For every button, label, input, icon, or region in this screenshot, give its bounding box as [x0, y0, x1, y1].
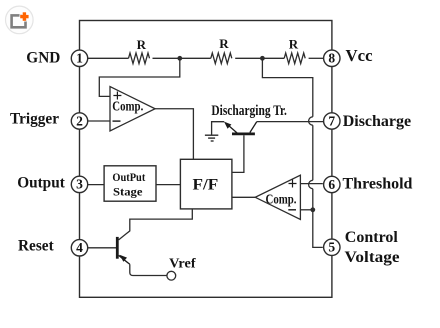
wire pin1 to R1: [88, 57, 129, 59]
svg-text:F/F: F/F: [193, 177, 219, 194]
node A junction dot: [177, 56, 182, 61]
svg-text:Control: Control: [345, 229, 399, 246]
svg-text:R: R: [219, 36, 229, 51]
svg-text:Vcc: Vcc: [346, 46, 374, 65]
wire pin 2 to comparator 1 minus input: [88, 120, 110, 122]
wire comparator 1 output to F/F: [155, 109, 193, 160]
wire R1 to node A: [153, 57, 211, 59]
svg-text:8: 8: [328, 51, 335, 66]
pin 4: [71, 240, 87, 256]
pin 7: [324, 113, 340, 129]
open-in-new icon: [5, 6, 33, 34]
wire pin 3 to output stage: [88, 184, 104, 186]
output stage box: [104, 166, 156, 201]
wire R2 to node B: [235, 57, 284, 59]
svg-text:Stage: Stage: [113, 186, 143, 198]
wire comparator 2 minus input to control net: [300, 209, 312, 211]
op-amp comparator 1: [110, 87, 155, 131]
resistor R1: [129, 53, 150, 64]
svg-text:Comp.: Comp.: [266, 191, 297, 206]
svg-text:Vref: Vref: [169, 256, 196, 271]
pin 2: [71, 113, 87, 129]
resistor R3: [284, 53, 305, 64]
svg-text:4: 4: [76, 240, 83, 255]
wire Q1 base to F/F: [232, 135, 244, 172]
wire F/F to transistor Q2 collector: [119, 209, 193, 240]
svg-text:Output: Output: [17, 174, 66, 191]
transistor Q2 reset: [117, 237, 130, 264]
ground: [205, 135, 218, 141]
wire ground to transistor Q1 emitter: [212, 122, 225, 135]
comparator 1 plus mark: [113, 92, 121, 100]
svg-text:Comp.: Comp.: [112, 99, 143, 114]
svg-text:Discharge: Discharge: [343, 113, 411, 130]
svg-text:5: 5: [328, 240, 335, 255]
svg-text:1: 1: [76, 51, 83, 66]
wire hop over discharge wire: [309, 117, 313, 125]
comparator 2 plus mark: [289, 180, 297, 188]
svg-text:Voltage: Voltage: [345, 249, 400, 266]
wire R3 to pin 8: [309, 57, 324, 59]
pin 6: [324, 176, 340, 192]
pin 8: [324, 50, 340, 66]
wire pin 6 to comparator 2 plus input: [300, 183, 322, 185]
svg-text:2: 2: [76, 113, 83, 128]
wire pin 4 to Q2 base: [88, 247, 116, 249]
comparator 2 minus mark: [288, 209, 296, 211]
wire Q2 emitter to Vref terminal: [130, 264, 167, 275]
wire hop over threshold wire: [309, 180, 313, 188]
pin 1: [71, 50, 87, 66]
comparator 1 minus mark: [113, 120, 121, 122]
svg-text:6: 6: [328, 177, 335, 192]
svg-text:Threshold: Threshold: [343, 176, 413, 193]
svg-text:3: 3: [76, 177, 83, 192]
svg-text:OutPut: OutPut: [112, 172, 145, 184]
wire node A to comparator 1 plus input: [99, 58, 180, 96]
IC package outline: [80, 21, 332, 298]
flip-flop F/F: [180, 159, 232, 209]
junction dot control net: [310, 207, 315, 212]
op-amp comparator 2: [255, 175, 300, 219]
node B junction dot: [260, 56, 265, 61]
svg-text:R: R: [137, 37, 147, 52]
Vref terminal: [167, 271, 176, 280]
svg-text:Trigger: Trigger: [10, 110, 59, 127]
svg-text:Discharging Tr.: Discharging Tr.: [211, 103, 287, 119]
wire comparator 2 output to F/F: [232, 196, 255, 198]
svg-text:Reset: Reset: [18, 238, 55, 255]
wire node B to control voltage net: [262, 58, 322, 247]
wire Q1 collector to pin 7: [257, 121, 323, 123]
wire output stage to F/F: [156, 184, 180, 186]
transistor Q1 discharging: [224, 122, 257, 134]
resistor R2: [211, 53, 232, 64]
svg-text:R: R: [289, 37, 299, 52]
pin 3: [71, 176, 87, 192]
svg-text:7: 7: [328, 113, 335, 128]
pin 5: [324, 239, 340, 255]
svg-text:GND: GND: [26, 50, 60, 67]
